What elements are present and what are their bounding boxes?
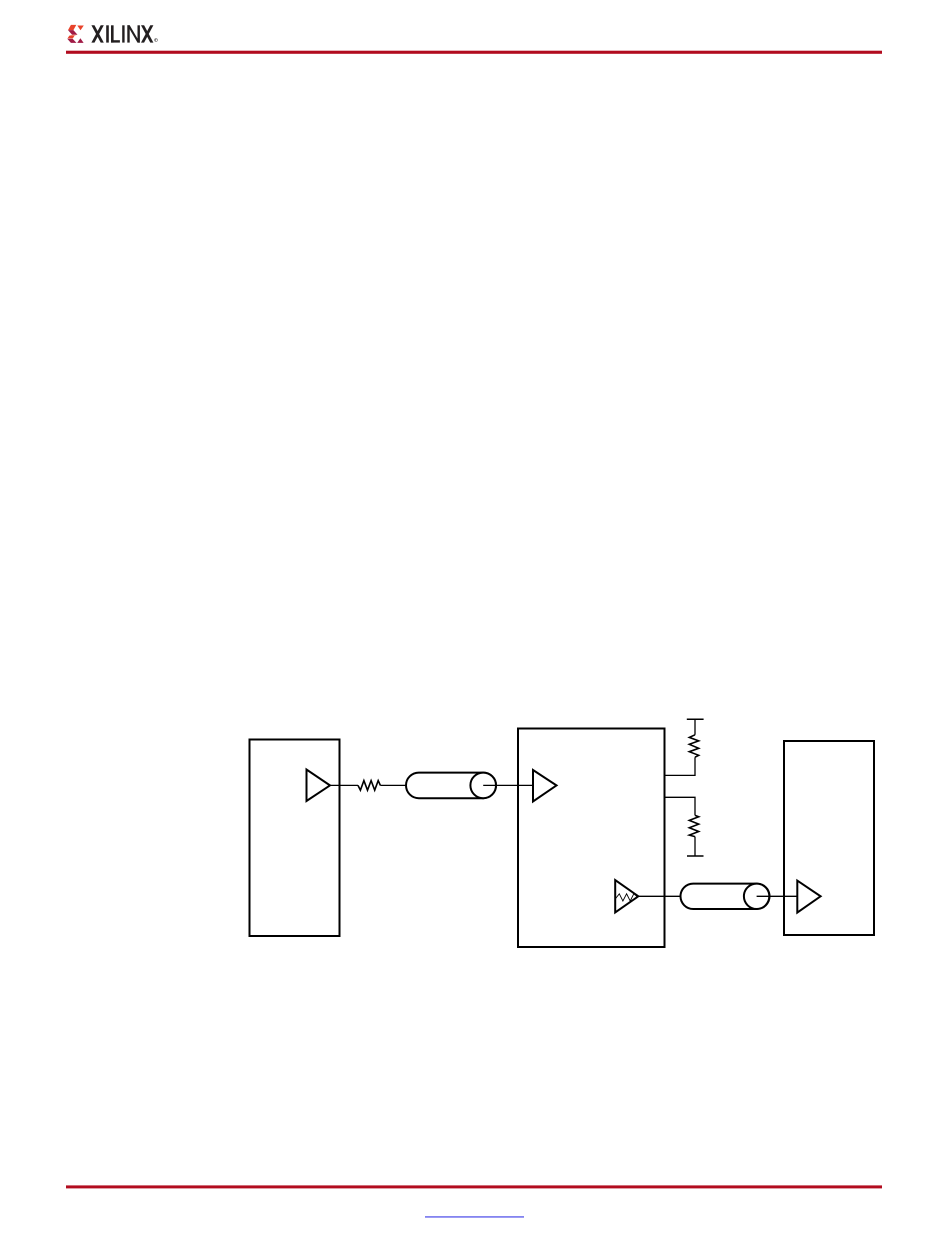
right box receiver device [784,741,874,935]
input buffer U2 [533,770,557,802]
series resistor RS [358,781,380,791]
wire R1 to VTT terminal [694,719,696,735]
ground [687,855,704,857]
wire pad to pull-up resistor [665,757,695,775]
input buffer U4 [797,881,820,913]
wire TL2 to receiver [757,895,798,897]
footer rule [66,1185,882,1188]
pull-down resistor R2 [689,815,698,836]
output driver U3 with controlled impedance [615,880,638,913]
wire R2 to ground [694,837,696,856]
footer hyperlink underline [425,1216,524,1218]
pull-up resistor R1 [689,735,698,757]
Xilinx logo mark [67,25,84,43]
internal impedance zigzag of U3 [615,894,637,901]
wire pad to pull-down resistor [665,797,695,815]
transmission line TL1 [406,773,496,799]
wire series resistor to transmission line [380,784,407,786]
header rule [66,51,882,54]
middle box FPGA device [518,729,665,948]
wire U3 to transmission line TL2 [638,895,682,897]
wire U1 to series resistor [329,784,358,786]
transmission line TL2 [681,884,770,909]
Xilinx wordmark [91,25,157,42]
VTT terminal [687,718,704,720]
left box transmitter device [250,740,340,937]
output buffer U1 [307,770,331,802]
wire TL1 to receiver input [483,784,534,786]
